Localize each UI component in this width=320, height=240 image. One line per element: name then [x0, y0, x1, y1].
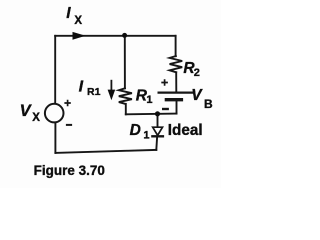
label V_B: [191, 87, 213, 111]
current arrow IX: [73, 32, 86, 40]
wire node horizontal (R1 bottom to battery stub): [126, 113, 177, 116]
svg-text:I: I: [79, 79, 84, 96]
wire R2 to battery: [175, 72, 177, 92]
current arrow IR1: [108, 80, 116, 100]
wire diode branch upper (node to D1): [157, 114, 159, 127]
label D_1: [130, 122, 150, 141]
svg-text:X: X: [74, 15, 82, 27]
svg-text:Figure 3.70: Figure 3.70: [34, 163, 105, 178]
svg-text:I: I: [66, 5, 71, 22]
junction node dot bottom: [155, 111, 160, 116]
svg-text:1: 1: [143, 130, 149, 142]
wire R1 bottom lead: [125, 104, 127, 114]
plus sign VX: [64, 100, 70, 106]
minus sign VB: [162, 108, 169, 110]
svg-text:1: 1: [146, 94, 152, 106]
svg-text:D: D: [130, 122, 141, 139]
svg-text:B: B: [204, 97, 213, 111]
diode D1 triangle: [153, 127, 163, 135]
wire left branch upper (Vx top to top-left corner): [54, 36, 56, 104]
label R_2: [183, 60, 200, 79]
diode D1 cathode bar: [152, 135, 163, 137]
svg-text:2: 2: [194, 67, 200, 79]
wire top (top-left corner to top-right corner): [55, 35, 175, 37]
minus sign VX: [66, 124, 72, 126]
wire left branch lower (bottom-left corner to Vx bottom): [54, 122, 56, 152]
label I_X: [66, 5, 82, 27]
wire right branch upper (top-right corner to R2): [175, 36, 177, 56]
junction node dot top: [122, 33, 127, 38]
label V_X: [20, 102, 41, 124]
plus sign VB: [161, 79, 168, 86]
battery VB top plate: [159, 91, 193, 93]
wire battery to node: [176, 101, 178, 113]
label I_R1: [79, 79, 101, 99]
svg-text:X: X: [32, 112, 40, 124]
wire diode lower lead: [155, 137, 158, 150]
svg-text:V: V: [191, 87, 203, 104]
wire middle branch upper (junction to R1): [124, 36, 126, 89]
label R_1: [136, 88, 153, 107]
battery VB bottom plate: [166, 98, 181, 101]
source VX circle: [45, 104, 64, 123]
svg-text:R1: R1: [87, 86, 101, 98]
svg-text:Ideal: Ideal: [168, 122, 203, 139]
resistor R2: [170, 56, 183, 72]
resistor R1: [119, 88, 132, 104]
wire bottom (diode to bottom-left corner): [55, 150, 156, 153]
